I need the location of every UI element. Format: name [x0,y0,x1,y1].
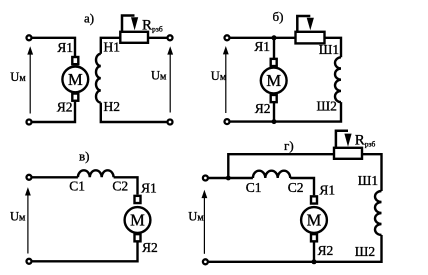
svg-text:С1: С1 [69,179,85,194]
shunt winding Ш1-Ш2 (б) [335,57,341,102]
terminal г bottom-left [203,259,208,264]
rheostat Rрзб body (г) [334,148,362,159]
rheostat wiper arrow (а) [122,16,138,32]
svg-text:Я1: Я1 [141,181,157,196]
shunt winding Ш1-Ш2 (г) [375,191,381,235]
wire б: brush Я2 down to bottom junction [273,103,275,122]
svg-text:Uм: Uм [188,210,204,224]
svg-text:Я2: Я2 [255,101,271,116]
svg-text:в): в) [79,149,89,164]
wire г: rheostat to shunt winding top [362,154,382,191]
wire г: terminal to series winding C1 [208,177,253,179]
wire в: series winding C2 to brush Я1 [114,177,138,194]
wire а: field winding H2 bottom to bottom-right terminal [101,103,167,122]
svg-text:Uм: Uм [151,69,167,83]
terminal б top-left [225,35,230,40]
voltage arrow Uм (в) [25,187,31,253]
brush Я2 (б) [271,95,277,102]
wire г: junction riser to top rail and rheostat [228,154,334,178]
motor armature circle M (г) [301,207,327,233]
svg-text:Я2: Я2 [57,99,73,114]
brush Я1 (в) [135,196,141,203]
brush Я1 (а) [72,57,78,64]
voltage arrow Uм (б) [223,46,229,113]
svg-text:Ш2: Ш2 [317,99,337,114]
junction dot г top-left [226,176,231,181]
svg-text:Uм: Uм [211,69,227,83]
svg-text:Я2: Я2 [142,240,158,255]
svg-text:М: М [68,70,83,89]
svg-text:М: М [307,211,322,230]
svg-text:С1: С1 [246,180,262,195]
svg-text:а): а) [84,11,94,26]
svg-text:С2: С2 [288,180,304,195]
series winding C1-C2 (г) [253,171,290,178]
rheostat wiper arrow (г) [336,131,352,148]
field winding H1-H2 (а) [96,54,101,103]
svg-text:Ш2: Ш2 [355,244,375,259]
svg-text:б): б) [273,9,284,24]
terminal в top-left [27,175,32,180]
svg-text:Я2: Я2 [318,243,334,258]
series winding C1-C2 (в) [78,170,114,177]
rheostat body (б) [296,32,325,44]
motor armature circle M (а) [62,67,88,93]
terminal а bottom-left [27,120,32,125]
svg-text:Uм: Uм [10,70,26,84]
wire а: top-left terminal to brush Я1 [32,38,75,56]
terminal б bottom-left [225,119,230,124]
svg-text:Я1: Я1 [319,183,335,198]
brush Я1 (г) [311,196,317,203]
voltage arrow Uм (а right) [167,46,173,112]
rheostat Rрзб body (а) [120,32,148,43]
junction dot б top [272,35,277,40]
svg-text:Я1: Я1 [57,40,73,55]
wire б: rheostat to shunt winding top [325,38,342,58]
wire б: shunt winding bottom to bottom rail [230,102,341,122]
terminal в bottom-left [27,259,32,264]
svg-text:М: М [266,71,281,90]
svg-text:Н2: Н2 [104,99,121,114]
wire г: series winding C2 to brush Я1 [290,178,314,195]
svg-text:Ш1: Ш1 [319,42,339,57]
brush Я1 (б) [271,59,277,66]
wire г: shunt winding bottom to bottom rail [209,235,382,262]
svg-text:Uм: Uм [10,209,26,223]
junction dot г bottom [312,259,317,264]
terminal а bottom-right [168,120,173,125]
wire а: field winding H1 top to rheostat [101,38,121,54]
terminal а top-left [27,35,32,40]
wire б: top rail from terminal to rheostat [230,37,295,39]
svg-text:г): г) [284,138,294,153]
brush Я2 (г) [311,234,317,241]
svg-text:М: М [130,211,145,230]
terminal г top-left [203,176,208,181]
svg-text:Н1: Н1 [104,40,121,55]
wire а: rheostat to top-right terminal [148,37,167,39]
svg-text:Ш1: Ш1 [358,173,378,188]
wire а: brush Я2 down and left to bottom-left terminal [32,102,75,122]
voltage arrow Uм (а left) [27,46,33,113]
svg-text:С2: С2 [112,179,128,194]
wire г: brush Я2 down to bottom rail [313,242,315,261]
voltage arrow Uм (г) [202,190,208,254]
rheostat wiper arrow (б) [297,16,314,32]
wire в: brush Я2 down and left to bottom-left terminal [32,242,137,261]
svg-text:Я1: Я1 [254,39,270,54]
motor armature circle M (б) [261,68,287,94]
motor armature circle M (в) [125,207,151,233]
wire б: junction down to brush Я1 [273,38,275,58]
wire в: top-left terminal to series winding C1 [32,176,78,178]
terminal а top-right [168,35,173,40]
brush Я2 (в) [135,234,141,241]
brush Я2 (а) [72,94,78,101]
junction dot б bottom [272,119,277,124]
